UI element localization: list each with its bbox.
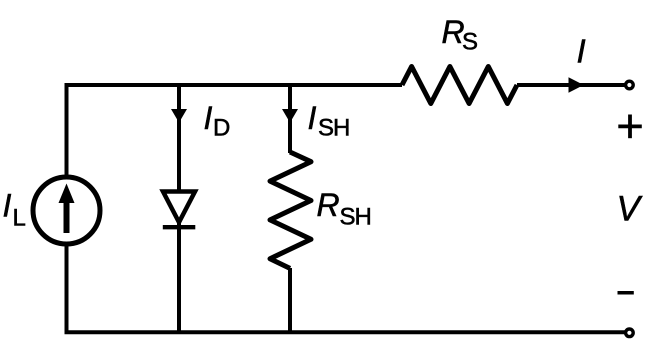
wire: diode branch upper segment (177, 85, 181, 192)
svg-text:H: H (355, 204, 372, 231)
svg-text:I: I (308, 100, 317, 136)
svg-text:S: S (462, 28, 478, 55)
wire: left vertical (top half) (65, 85, 69, 179)
svg-text:S: S (318, 115, 334, 142)
terminal: bottom (negative) (626, 329, 634, 337)
wire: top horizontal (right of RS) (517, 83, 625, 87)
svg-text:V: V (617, 189, 644, 228)
wire: bottom horizontal (65, 330, 626, 334)
svg-text:I: I (204, 100, 213, 136)
svg-text:S: S (340, 204, 356, 231)
resistor RS (horizontal zigzag) (402, 67, 517, 104)
label minus sign (618, 291, 634, 295)
svg-text:D: D (213, 115, 230, 142)
wire: left vertical (bottom half) (65, 242, 69, 332)
current arrow ID (171, 109, 187, 123)
label plus sign (618, 115, 642, 139)
diode D (triangle) (163, 192, 195, 223)
current source IL (circle) (33, 177, 100, 244)
wire: shunt branch lower segment (288, 268, 292, 332)
diode D (cathode bar) (163, 225, 196, 229)
svg-text:R: R (317, 187, 340, 223)
svg-text:L: L (13, 205, 26, 232)
wire: shunt branch upper segment (288, 85, 292, 153)
terminal: top (positive) (626, 81, 634, 89)
svg-text:I: I (3, 187, 12, 223)
svg-text:H: H (333, 115, 350, 142)
wire: diode branch lower segment (177, 222, 181, 332)
output current arrow I (569, 77, 584, 93)
current source IL (arrow) (59, 184, 75, 234)
resistor RSH (vertical zigzag) (270, 152, 311, 268)
current arrow ISH (282, 109, 298, 123)
svg-text:I: I (577, 33, 586, 70)
wire: top horizontal (left of RS) (65, 83, 403, 87)
